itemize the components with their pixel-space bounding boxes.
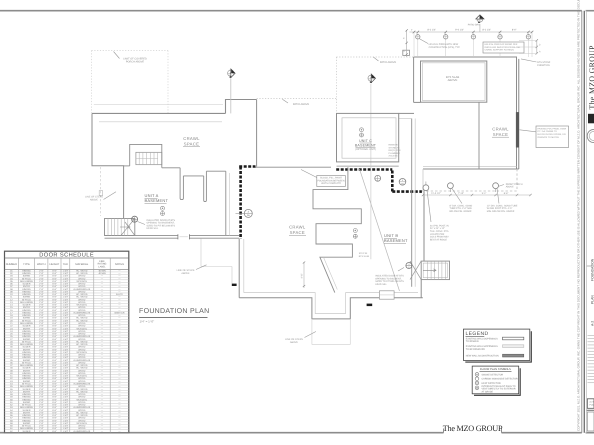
svg-text:1 3/4": 1 3/4" [63,293,69,296]
svg-text:1 3/4": 1 3/4" [63,335,69,338]
svg-text:1 3/4": 1 3/4" [63,361,69,364]
svg-text:2'-8": 2'-8" [39,319,44,322]
svg-text:WOOD/GL: WOOD/GL [77,327,88,330]
limit of covered porch dashed outline [92,51,169,114]
svg-text:6'-8": 6'-8" [52,382,57,385]
svg-text:CONSTRUCTION (UPS), TYP.: CONSTRUCTION (UPS), TYP. [429,46,461,49]
svg-text:HINGED: HINGED [22,290,31,293]
right building top exterior wall [414,57,517,102]
svg-text:COPYRIGHT 2021, M.Z.O. ARCHITE: COPYRIGHT 2021, M.Z.O. ARCHITECTURAL GRO… [576,0,580,431]
svg-text:1 3/4": 1 3/4" [63,296,69,299]
svg-text:HINGED: HINGED [22,269,31,272]
svg-text:1 3/4": 1 3/4" [63,322,69,325]
svg-text:PATIO ABOVE: PATIO ABOVE [293,103,310,106]
svg-text:1/4" = 1'-0": 1/4" = 1'-0" [140,320,155,324]
svg-text:2'-8": 2'-8" [39,356,44,359]
note: sono tube footing (left) [450,189,473,214]
svg-text:2'-8": 2'-8" [39,309,44,312]
svg-text:HC. WOOD: HC. WOOD [76,390,88,393]
svg-text:WOOD: WOOD [78,377,85,380]
svg-text:PLAN: PLAN [591,295,594,304]
svg-text:ENTRY: ENTRY [23,306,31,309]
svg-text:1 3/4": 1 3/4" [63,304,69,307]
svg-text:SMOKE DETECTOR: SMOKE DETECTOR [482,373,504,376]
svg-text:1 3/4": 1 3/4" [63,280,69,283]
svg-text:BEST AT RIDGE: BEST AT RIDGE [430,238,448,241]
svg-text:HC. WOOD: HC. WOOD [76,367,88,370]
svg-text:6'-8": 6'-8" [52,272,57,275]
svg-text:UNITS COMPLETE: UNITS COMPLETE [321,182,342,185]
svg-text:TO REMAIN: TO REMAIN [466,340,479,343]
svg-text:ABOVE: ABOVE [290,341,299,344]
crawl wall right of BTS slab [478,102,480,169]
svg-text:FOUNDATION: FOUNDATION [591,258,594,281]
svg-text:WOOD: WOOD [78,372,85,375]
unit A basement interior walls with crawl access slots [124,144,230,235]
svg-text:WOOD: WOOD [78,396,85,399]
svg-text:SLIDER: SLIDER [23,409,31,412]
door schedule table outer border [5,251,129,432]
svg-text:2'-8": 2'-8" [39,364,44,367]
svg-text:1 3/4": 1 3/4" [63,351,69,354]
svg-text:2'-8": 2'-8" [39,346,44,349]
unit A bottom exterior double wall [105,234,240,239]
svg-text:2'-8": 2'-8" [39,298,44,301]
svg-text:6'-8": 6'-8" [52,283,57,286]
svg-text:INSTALLER INVESTIGATIONS AND: INSTALLER INVESTIGATIONS AND [485,46,521,49]
svg-text:SWING: SWING [23,317,31,320]
svg-text:1 3/4": 1 3/4" [63,340,69,343]
svg-text:1 3/4": 1 3/4" [63,298,69,301]
porch footing circle 3 [493,183,499,192]
svg-text:2'-8": 2'-8" [39,380,44,383]
svg-text:2'-8": 2'-8" [39,388,44,391]
svg-text:HINGED: HINGED [22,311,31,314]
middle building right wall at stairs [421,191,424,298]
level marker circle below party wall [375,175,381,181]
legend row 3: new walls construction [466,354,524,357]
note: BTS stone foundation [521,59,551,67]
svg-text:ALUM/FBRGLAS: ALUM/FBRGLAS [73,382,90,385]
svg-text:HINGED: HINGED [22,398,31,401]
svg-text:THK. CONC. FTG.: THK. CONC. FTG. [430,230,450,233]
patio above dotted line (center) [257,98,337,100]
svg-text:2'-8": 2'-8" [39,361,44,364]
svg-text:2'-8": 2'-8" [39,322,44,325]
svg-text:1 3/4": 1 3/4" [63,325,69,328]
right building bottom wall [423,167,519,191]
svg-text:1 3/4": 1 3/4" [63,309,69,312]
svg-text:HINGED: HINGED [22,417,31,420]
svg-text:2'-8": 2'-8" [39,288,44,291]
svg-text:WOOD: WOOD [78,369,85,372]
svg-text:1 3/4": 1 3/4" [63,359,69,362]
svg-text:HC. WOOD: HC. WOOD [76,340,88,343]
svg-text:6'-8": 6'-8" [52,406,57,409]
svg-text:2'-8": 2'-8" [39,393,44,396]
svg-text:ENTRY: ENTRY [23,369,31,372]
svg-text:OPENING TO BASEMENT,: OPENING TO BASEMENT, [147,222,175,225]
note: line of steps above (middle) [177,265,207,275]
svg-text:1 3/4": 1 3/4" [63,369,69,372]
svg-text:SLIDER: SLIDER [23,304,31,307]
svg-text:6'-8": 6'-8" [52,319,57,322]
svg-text:ALUM/FBRGLAS: ALUM/FBRGLAS [73,430,90,433]
svg-text:SIZED TO FIT BELOW BTS: SIZED TO FIT BELOW BTS [375,280,404,283]
right building right exterior double wall [517,57,519,169]
svg-text:8'-8": 8'-8" [504,192,509,195]
section marker C (top right) [476,15,484,23]
svg-text:FLOOR PLAN SYMBOLS: FLOOR PLAN SYMBOLS [480,368,511,371]
svg-text:1 3/4": 1 3/4" [63,348,69,351]
svg-text:DBL HINGED: DBL HINGED [20,322,34,325]
svg-text:2'-8": 2'-8" [39,348,44,351]
long interior diagonal line [360,169,400,291]
svg-text:2'-8": 2'-8" [39,290,44,293]
svg-text:ENTRY: ENTRY [23,411,31,414]
svg-text:4'-6": 4'-6" [301,273,304,278]
svg-text:6'-8": 6'-8" [52,275,57,278]
floor plan symbols title [480,368,512,371]
svg-text:2'-8": 2'-8" [39,301,44,304]
svg-text:HC. WOOD: HC. WOOD [76,293,88,296]
middle building bottom exterior double wall [239,293,423,319]
title block: architect seal circle [587,129,594,142]
svg-text:6'-8": 6'-8" [52,430,57,433]
svg-text:BI-FOLD: BI-FOLD [22,340,31,343]
svg-text:BI-FOLD: BI-FOLD [22,361,31,364]
svg-text:1 3/4": 1 3/4" [63,427,69,430]
note: helical pier cap sizing (boxed) [483,42,524,53]
svg-text:6'-8": 6'-8" [52,354,57,357]
svg-text:ENTRY: ENTRY [23,390,31,393]
svg-text:TYPE: TYPE [23,263,30,266]
svg-text:HINGED: HINGED [22,354,31,357]
svg-text:BI-FOLD: BI-FOLD [22,425,31,428]
svg-text:HC. WOOD: HC. WOOD [76,296,88,299]
svg-text:1 3/4": 1 3/4" [63,425,69,428]
svg-text:6'-8": 6'-8" [52,338,57,341]
svg-text:6'-8": 6'-8" [52,285,57,288]
svg-text:6'-8": 6'-8" [52,311,57,314]
svg-text:COLS FROM ABV: COLS FROM ABV [430,236,449,239]
svg-text:1 3/4": 1 3/4" [63,314,69,317]
svg-text:6'-8": 6'-8" [52,377,57,380]
crawl wall above unit C (double) [399,113,414,118]
svg-text:2'-8": 2'-8" [39,325,44,328]
svg-text:1 3/4": 1 3/4" [63,354,69,357]
unit A basement label [145,193,169,203]
svg-text:FRONT PORCH: FRONT PORCH [506,183,523,186]
svg-text:BASEMENT: BASEMENT [145,198,169,203]
svg-text:HEAT DETECTOR: HEAT DETECTOR [482,382,501,385]
svg-text:12" DIA. CONC. SONO TUBE: 12" DIA. CONC. SONO TUBE [487,204,518,207]
svg-text:INSULATED DOOR AT BTS: INSULATED DOOR AT BTS [375,275,404,278]
svg-text:WOOD: WOOD [78,356,85,359]
door schedule column lines [18,258,110,433]
svg-text:6'-8": 6'-8" [52,367,57,370]
svg-text:A5: A5 [229,74,231,77]
svg-text:6'-8": 6'-8" [52,277,57,280]
svg-text:A-2 FND: A-2 FND [590,401,594,404]
svg-text:6'-8": 6'-8" [52,372,57,375]
svg-text:HINGED: HINGED [22,419,31,422]
svg-text:STONE AS: STONE AS [389,146,400,149]
svg-text:PATIO DRS: PATIO DRS [468,23,481,26]
svg-text:1 3/4": 1 3/4" [63,367,69,370]
svg-text:DBL HINGED: DBL HINGED [20,385,34,388]
svg-text:1 3/4": 1 3/4" [63,422,69,425]
svg-text:1 3/4": 1 3/4" [63,330,69,333]
svg-text:5': 5' [403,37,406,39]
svg-text:6'-8": 6'-8" [52,361,57,364]
svg-text:6'-8": 6'-8" [52,301,57,304]
svg-text:WOOD: WOOD [78,298,85,301]
vertical dimension 4'-6 near bay [301,262,306,289]
svg-text:WOOD: WOOD [78,404,85,407]
unit B right interior double wall [412,119,416,287]
svg-text:6'-8": 6'-8" [52,369,57,372]
svg-text:SLIDER: SLIDER [23,430,31,433]
door tag circle (unit B stair) [406,263,412,269]
svg-text:2'-8": 2'-8" [39,311,44,314]
svg-text:2'-8": 2'-8" [39,401,44,404]
svg-text:NOTES: NOTES [115,263,124,266]
svg-text:6'-8": 6'-8" [52,309,57,312]
svg-text:2'-8": 2'-8" [39,317,44,320]
svg-text:6'-8": 6'-8" [52,414,57,417]
svg-text:1 3/4": 1 3/4" [63,409,69,412]
svg-text:LEGEND: LEGEND [466,331,489,337]
note: patio above (right) [373,57,396,64]
svg-text:1 3/4": 1 3/4" [63,372,69,375]
door tag circle 4/8 (unit A) [132,216,138,222]
unit B basement label [384,233,408,243]
svg-text:6'-8": 6'-8" [52,296,57,299]
legend row 1: existing walls to remain [466,337,524,343]
svg-text:WOOD: WOOD [78,275,85,278]
svg-text:1 3/4": 1 3/4" [63,419,69,422]
svg-text:HINGED: HINGED [22,314,31,317]
svg-text:ALUM/FBRGLAS: ALUM/FBRGLAS [73,406,90,409]
svg-text:WOOD: WOOD [78,427,85,430]
svg-text:REMOVE: REMOVE [389,144,399,147]
svg-text:2'-8": 2'-8" [39,354,44,357]
svg-text:2'-8": 2'-8" [39,269,44,272]
svg-text:WOOD: WOOD [78,409,85,412]
svg-text:AT GRADE: AT GRADE [482,391,494,394]
svg-text:BI-FOLD: BI-FOLD [22,319,31,322]
svg-text:WOOD: WOOD [78,306,85,309]
svg-text:SLIDER: SLIDER [23,325,31,328]
svg-text:PLUMBING: PLUMBING [389,152,401,155]
svg-text:6'-8": 6'-8" [52,404,57,407]
svg-text:2'-8": 2'-8" [39,351,44,354]
svg-text:HEAD SILL: HEAD SILL [147,227,159,230]
svg-text:FNDWTION: FNDWTION [537,64,550,67]
svg-text:2': 2' [411,28,413,31]
svg-text:6'-8": 6'-8" [52,351,57,354]
svg-text:HELICAL PIERS WITH NEW: HELICAL PIERS WITH NEW [429,43,459,46]
svg-text:WOOD: WOOD [78,322,85,325]
svg-text:HC. WOOD: HC. WOOD [76,272,88,275]
svg-text:NEW WALLS/CONSTRUCTION: NEW WALLS/CONSTRUCTION [466,355,499,358]
unit C detector symbols [360,128,364,137]
svg-text:HC. WOOD: HC. WOOD [76,269,88,272]
svg-text:1 3/4": 1 3/4" [63,277,69,280]
unit B lower stair with treads [410,261,450,280]
svg-text:6'-8": 6'-8" [52,396,57,399]
line of steps below bay (dashed) [312,319,350,345]
svg-text:1 3/4": 1 3/4" [63,275,69,278]
svg-text:HINGED: HINGED [22,377,31,380]
symbol row 4: interunit exhaust fans [475,385,516,394]
svg-text:PORCH ABOVE: PORCH ABOVE [126,61,145,64]
section marker A (top left) [228,69,236,78]
svg-text:6'-8": 6'-8" [52,356,57,359]
svg-text:WOOD/GL: WOOD/GL [77,304,88,307]
svg-text:SPACE: SPACE [184,141,199,146]
svg-text:1 3/4": 1 3/4" [63,338,69,341]
svg-text:1 3/4": 1 3/4" [63,306,69,309]
svg-text:8" DIA. CONC. SONO: 8" DIA. CONC. SONO [450,204,473,207]
svg-text:7'-10": 7'-10" [458,192,464,195]
svg-text:6'-8": 6'-8" [52,375,57,378]
svg-text:6'-8": 6'-8" [52,340,57,343]
svg-text:SWING: SWING [23,296,31,299]
svg-text:HELICAL PIER/CAP SIZING PER: HELICAL PIER/CAP SIZING PER [485,43,518,46]
svg-text:SWING: SWING [23,422,31,425]
svg-text:1 3/4": 1 3/4" [63,272,69,275]
svg-text:1 3/4": 1 3/4" [63,377,69,380]
note: helical piers with new construction [419,39,460,50]
svg-text:6'-8": 6'-8" [52,269,57,272]
svg-text:WOOD: WOOD [78,385,85,388]
svg-text:2'-8": 2'-8" [39,280,44,283]
svg-text:6'-8": 6'-8" [52,359,57,362]
svg-text:1 3/4": 1 3/4" [63,288,69,291]
section cut vertical line through plan [370,84,372,259]
svg-text:CARBON MONOXIDE DETECTOR: CARBON MONOXIDE DETECTOR [482,378,519,381]
svg-text:8'-2 1/4": 8'-2 1/4" [482,28,491,31]
note: patio above (center) [282,99,309,106]
svg-text:2'-8": 2'-8" [39,285,44,288]
svg-text:HINGED: HINGED [22,335,31,338]
left corner vertical dimension ticks [403,29,408,57]
svg-text:2'-8": 2'-8" [39,375,44,378]
svg-text:2'-8": 2'-8" [39,419,44,422]
svg-text:1 3/4": 1 3/4" [63,343,69,346]
svg-text:2'-8": 2'-8" [39,385,44,388]
svg-text:6'-8": 6'-8" [52,411,57,414]
svg-text:6'-8": 6'-8" [52,293,57,296]
svg-text:LABEL: LABEL [98,265,106,268]
svg-text:2'-8": 2'-8" [39,283,44,286]
svg-text:HINGED: HINGED [22,272,31,275]
note: remove stone for plumbing access [389,144,401,158]
porch footing circle 1 [423,182,429,191]
middle building left exterior double wall [239,239,244,298]
symbol row 3: heat detector [475,381,501,385]
svg-text:6'-8": 6'-8" [52,314,57,317]
svg-text:WOOD: WOOD [78,401,85,404]
svg-text:SWING: SWING [23,275,31,278]
section marker A cut line [230,79,232,114]
svg-text:HC. WOOD: HC. WOOD [76,364,88,367]
svg-text:SLIDER: SLIDER [23,367,31,370]
svg-text:2'-8": 2'-8" [39,411,44,414]
svg-text:A-2: A-2 [591,321,594,326]
svg-text:1 3/4": 1 3/4" [63,290,69,293]
svg-text:ACCESS: ACCESS [389,155,399,158]
svg-text:2'-8": 2'-8" [39,330,44,333]
svg-text:6'-8": 6'-8" [52,422,57,425]
svg-text:CRAWL: CRAWL [289,225,306,230]
svg-text:ABOVE: ABOVE [181,272,190,275]
svg-text:8'-0": 8'-0" [512,28,517,31]
svg-text:2'-8": 2'-8" [39,277,44,280]
svg-text:WOOD: WOOD [78,333,85,336]
svg-text:2'-8": 2'-8" [39,427,44,430]
bottom door opening jambs [379,291,394,299]
svg-text:6'-8": 6'-8" [52,290,57,293]
svg-text:BSMT DR: BSMT DR [115,311,125,314]
svg-text:6'-8": 6'-8" [52,325,57,328]
svg-text:BLOCK IN FND OPENS, OR: BLOCK IN FND OPENS, OR [538,133,566,136]
svg-text:GRANITE TO MATCH: GRANITE TO MATCH [538,136,560,139]
svg-text:2'-8": 2'-8" [39,396,44,399]
svg-text:DBL HINGED: DBL HINGED [20,343,34,346]
svg-text:6'-8": 6'-8" [52,317,57,320]
svg-text:WOOD: WOOD [78,290,85,293]
svg-text:2'-8": 2'-8" [39,304,44,307]
front porch dashed outline [422,169,517,191]
porch dimension line [422,192,532,196]
svg-text:8'-2 1/4": 8'-2 1/4" [427,28,436,31]
title block: revision table stripes [588,336,594,383]
svg-text:REQ'D FOR: REQ'D FOR [389,149,401,152]
floor plan symbols box with shadow [472,366,520,395]
svg-text:6'-8": 6'-8" [52,390,57,393]
svg-text:1 3/4": 1 3/4" [63,417,69,420]
svg-text:WOOD/GL: WOOD/GL [77,398,88,401]
svg-text:ABOVE: ABOVE [90,199,99,202]
svg-text:2'-8": 2'-8" [39,422,44,425]
sheet top border [0,10,594,12]
title block: project info text marks [591,258,594,326]
svg-text:2'-8": 2'-8" [39,333,44,336]
svg-text:SLIDER: SLIDER [23,388,31,391]
svg-text:2'-8": 2'-8" [39,293,44,296]
svg-text:WOOD: WOOD [78,361,85,364]
svg-text:BASEMENT: BASEMENT [384,238,408,243]
party wall (black dashed) unit A/crawl - L shape [239,167,255,239]
svg-text:HEAD SILL: HEAD SILL [375,283,387,286]
svg-text:HC. WOOD: HC. WOOD [76,317,88,320]
svg-text:2'-8": 2'-8" [39,414,44,417]
svg-text:2'-8": 2'-8" [39,359,44,362]
svg-text:6'-8": 6'-8" [52,348,57,351]
svg-text:SWING: SWING [23,338,31,341]
drawing title: FOUNDATION PLAN [139,308,210,324]
svg-text:5': 5' [539,43,542,45]
svg-text:A5: A5 [478,20,480,23]
crawl space wall line under party wall [256,166,332,168]
svg-text:WOOD: WOOD [78,380,85,383]
svg-text:1 3/4": 1 3/4" [63,382,69,385]
svg-text:6'-8": 6'-8" [52,327,57,330]
svg-text:6'-8": 6'-8" [52,364,57,367]
